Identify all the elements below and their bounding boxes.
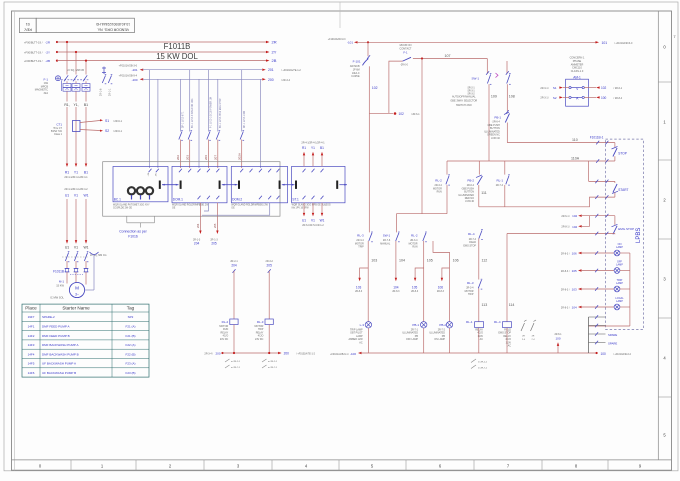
svg-text:F22 (B): F22 (B) bbox=[125, 352, 135, 356]
svg-text:F-101: F-101 bbox=[353, 59, 361, 63]
svg-text:105: 105 bbox=[572, 269, 577, 273]
svg-text:BC-1 LV13-7B12 ENG.STOP: BC-1 LV13-7B12 ENG.STOP bbox=[220, 98, 222, 128]
svg-text:STOP: STOP bbox=[618, 152, 627, 156]
svg-text:2R-3-4 /: 2R-3-4 / bbox=[204, 352, 213, 355]
feeder wire 202A bbox=[241, 70, 243, 132]
aux contact note bbox=[225, 359, 230, 362]
svg-text:R1: R1 bbox=[65, 170, 69, 174]
svg-text:-2R: -2R bbox=[45, 40, 51, 44]
svg-text:104: 104 bbox=[572, 306, 577, 310]
svg-text:2Y: 2Y bbox=[272, 50, 277, 55]
svg-text:DMF FEED PUMP A: DMF FEED PUMP A bbox=[42, 325, 69, 329]
svg-text:GE: GE bbox=[231, 207, 235, 209]
ref arrow 100 up bbox=[557, 345, 559, 354]
svg-text:2R-8-3 /: 2R-8-3 / bbox=[561, 252, 570, 255]
svg-text:BC.1: BC.1 bbox=[114, 197, 121, 201]
earth connection bbox=[90, 252, 99, 255]
svg-text:2R-7-4: 2R-7-4 bbox=[496, 184, 504, 187]
svg-text:-2R-3-1: -2R-3-1 bbox=[467, 91, 476, 93]
svg-text:14F5: 14F5 bbox=[28, 362, 35, 366]
cable R1Y1B1 into ST-1 x=313 bbox=[312, 154, 314, 166]
svg-text:Y1,: Y1, bbox=[73, 103, 78, 107]
CT donuts in BC-1 bbox=[128, 187, 135, 194]
svg-text:CURVE: CURVE bbox=[351, 75, 360, 78]
svg-text:19F7: 19F7 bbox=[28, 315, 35, 319]
svg-text:113: 113 bbox=[482, 303, 488, 307]
svg-text:200: 200 bbox=[284, 352, 290, 356]
svg-text:2R-8-3 /: 2R-8-3 / bbox=[561, 288, 570, 291]
MCB F-101 bbox=[367, 42, 369, 56]
lamp L-3 bbox=[365, 322, 371, 328]
svg-text:RL-3: RL-3 bbox=[467, 281, 474, 285]
svg-text:/ 2R-8-4: / 2R-8-4 bbox=[614, 97, 623, 100]
svg-text:W1: W1 bbox=[83, 246, 88, 250]
earth link bars BC-1/DOM-1 bbox=[159, 181, 161, 189]
svg-text:W1: W1 bbox=[320, 219, 325, 223]
svg-text:10-40-80001/22&44-HD: 10-40-80001/22&44-HD bbox=[95, 22, 130, 26]
svg-text:M: M bbox=[75, 286, 79, 291]
svg-text:PB-2: PB-2 bbox=[467, 179, 474, 183]
svg-text:SW-1: SW-1 bbox=[472, 77, 480, 81]
rail from 107 bbox=[421, 59, 423, 214]
svg-text:100: 100 bbox=[601, 352, 607, 356]
terminal box DOM-2 bbox=[231, 166, 287, 202]
wire B1 down bbox=[85, 107, 87, 164]
wire 108 bbox=[506, 84, 508, 111]
svg-text:2B: 2B bbox=[272, 58, 277, 63]
svg-text:EMG.STOP: EMG.STOP bbox=[618, 227, 634, 231]
wire 107 bbox=[413, 58, 487, 60]
svg-text:PB-1: PB-1 bbox=[494, 116, 501, 120]
wire 200 to BC-1 bbox=[157, 79, 159, 168]
svg-text:-2R-0-0: -2R-0-0 bbox=[400, 64, 409, 66]
svg-text:Class 1: Class 1 bbox=[54, 133, 63, 136]
svg-text:105: 105 bbox=[427, 259, 433, 263]
svg-text:2R-2-1: 2R-2-1 bbox=[230, 260, 238, 263]
svg-text:102: 102 bbox=[572, 214, 577, 218]
svg-text:DP-1 LV13-1/2M: DP-1 LV13-1/2M bbox=[244, 111, 246, 128]
svg-text:14F3: 14F3 bbox=[28, 343, 35, 347]
svg-text:m 2R-7-1: m 2R-7-1 bbox=[231, 367, 241, 369]
svg-text:/ +F1010A/9C3-0: / +F1010A/9C3-0 bbox=[614, 42, 633, 45]
svg-text:S1: S1 bbox=[553, 86, 557, 90]
svg-text:RL-1: RL-1 bbox=[466, 320, 473, 324]
svg-text:Y1: Y1 bbox=[74, 170, 78, 174]
svg-text:m 2R-2-1: m 2R-2-1 bbox=[268, 361, 278, 363]
svg-text:2R-8-3: 2R-8-3 bbox=[437, 291, 445, 293]
svg-text:F1011B-1: F1011B-1 bbox=[590, 135, 604, 139]
svg-text:LV39 40: LV39 40 bbox=[491, 137, 500, 140]
svg-text:110A: 110A bbox=[571, 157, 580, 161]
svg-text:2R-1-6: 2R-1-6 bbox=[100, 88, 103, 96]
svg-text:RL-2: RL-2 bbox=[222, 320, 229, 324]
svg-text:F-1 LV13-1/2C1B POWER 1M: F-1 LV13-1/2C1B POWER 1M bbox=[211, 97, 213, 128]
blue stub DOM-2 bbox=[202, 203, 270, 215]
svg-text:+F00/BLT7-19 /: +F00/BLT7-19 / bbox=[24, 59, 43, 63]
svg-text:RL-2: RL-2 bbox=[411, 234, 418, 238]
svg-text:2R: 2R bbox=[532, 336, 535, 338]
svg-text:205: 205 bbox=[267, 264, 273, 268]
svg-text:WQR GLAND RGLDR/MFBS61 2W: WQR GLAND RGLDR/MFBS61 2W bbox=[172, 203, 209, 206]
svg-text:204: 204 bbox=[231, 264, 237, 268]
svg-text:LAMP: LAMP bbox=[616, 246, 623, 249]
AM-1 102 output bbox=[584, 87, 596, 89]
svg-text:/ 2R-6-1: / 2R-6-1 bbox=[411, 113, 420, 116]
svg-text:B1: B1 bbox=[84, 103, 88, 107]
svg-text:14F6: 14F6 bbox=[28, 371, 35, 375]
svg-text:TRIP: TRIP bbox=[358, 246, 364, 249]
svg-text:S1: S1 bbox=[105, 119, 109, 123]
svg-text:F-1: F-1 bbox=[44, 78, 49, 82]
contact RL-3 trip bbox=[369, 233, 372, 241]
cable U1V1W1 out of ST-1 x=322 bbox=[321, 196, 324, 200]
wire 102 rail bbox=[368, 66, 370, 113]
svg-text:/ 2R-3-4: / 2R-3-4 bbox=[281, 79, 291, 82]
rail 103 to L-3 bbox=[367, 241, 369, 322]
svg-text:PB-2: PB-2 bbox=[439, 323, 446, 327]
lamp PB-2 bbox=[446, 322, 452, 328]
svg-text:EMG.STOP: EMG.STOP bbox=[463, 244, 476, 247]
svg-text:100: 100 bbox=[601, 96, 607, 100]
svg-text:F1016: F1016 bbox=[128, 234, 138, 238]
svg-text:GE: GE bbox=[172, 207, 176, 209]
svg-text:Y1: Y1 bbox=[311, 146, 315, 150]
svg-text:F-1: F-1 bbox=[403, 50, 408, 54]
wire R-phase drop bbox=[66, 42, 68, 75]
svg-text:202: 202 bbox=[176, 155, 180, 160]
svg-text:2R-6-1 /: 2R-6-1 / bbox=[561, 215, 570, 218]
svg-text:RL-2: RL-2 bbox=[435, 179, 442, 183]
feeder wire (blue) bbox=[198, 79, 200, 168]
svg-text:DMF BACKWASH PUMP B: DMF BACKWASH PUMP B bbox=[42, 352, 79, 356]
svg-text:AUTO/OFF/MANUAL: AUTO/OFF/MANUAL bbox=[452, 96, 476, 99]
svg-text:-2Y: -2Y bbox=[45, 50, 50, 54]
svg-text:110: 110 bbox=[572, 138, 578, 142]
push button PB-1 bbox=[506, 110, 509, 114]
svg-text:U1: U1 bbox=[65, 246, 69, 250]
svg-text:RL-1: RL-1 bbox=[496, 179, 503, 183]
outer gland box bbox=[103, 162, 280, 217]
svg-text:V1: V1 bbox=[74, 246, 78, 250]
svg-text:RL-3: RL-3 bbox=[357, 234, 364, 238]
rail 106 to PB-2 lamp bbox=[433, 241, 450, 322]
svg-text:205: 205 bbox=[211, 242, 217, 246]
feeder wire (blue) bbox=[259, 79, 261, 168]
svg-text:-9N: -9N bbox=[155, 173, 157, 177]
svg-text:LAMP: LAMP bbox=[616, 300, 623, 303]
svg-text:106: 106 bbox=[438, 286, 444, 290]
svg-text:UF BACKWASH PUMP A: UF BACKWASH PUMP A bbox=[42, 362, 76, 366]
svg-text:2R-6-C/R-5-C/R-1-2: 2R-6-C/R-5-C/R-1-2 bbox=[302, 224, 324, 227]
svg-text:202A: 202A bbox=[238, 153, 242, 160]
svg-text:ST.1: ST.1 bbox=[292, 197, 299, 201]
rail 104 stub bbox=[395, 241, 397, 279]
svg-text:F1011B: F1011B bbox=[164, 42, 191, 51]
svg-text:101: 101 bbox=[602, 41, 608, 45]
svg-text:REV.: REV. bbox=[24, 28, 32, 32]
svg-text:DMF BACKWASH PUMP A: DMF BACKWASH PUMP A bbox=[42, 343, 79, 347]
svg-text:SPARE: SPARE bbox=[608, 342, 617, 346]
wire 110A bbox=[447, 160, 615, 162]
svg-text:2R-3-1 /: 2R-3-1 / bbox=[540, 87, 549, 90]
svg-text:114: 114 bbox=[509, 303, 515, 307]
svg-text:DMF FEED PUMP B: DMF FEED PUMP B bbox=[42, 334, 70, 338]
svg-text:PB-1: PB-1 bbox=[412, 323, 419, 327]
svg-text:S2: S2 bbox=[105, 129, 109, 133]
svg-text:/ +F0102A/7E-1-2: / +F0102A/7E-1-2 bbox=[296, 353, 316, 356]
aux contacts below 100 bbox=[471, 359, 476, 363]
svg-text:104: 104 bbox=[393, 286, 399, 290]
svg-text:206: 206 bbox=[204, 155, 208, 160]
svg-text:M-1: M-1 bbox=[59, 280, 64, 284]
svg-text:Tag: Tag bbox=[127, 306, 135, 311]
svg-text:S2: S2 bbox=[553, 96, 557, 100]
lamp PB-1 bbox=[421, 322, 427, 328]
connection brace bbox=[126, 216, 128, 223]
svg-text:DP-1 LV13-6/T1: DP-1 LV13-6/T1 bbox=[183, 111, 185, 128]
isolator DP-1 contacts bbox=[102, 67, 106, 75]
svg-text:102: 102 bbox=[601, 86, 607, 90]
svg-text:2R-8-1: 2R-8-1 bbox=[554, 334, 562, 336]
svg-text:CT1: CT1 bbox=[56, 123, 62, 127]
svg-text:B1: B1 bbox=[84, 170, 88, 174]
svg-text:2R-4-1/2R-4-1/2R-4-1: 2R-4-1/2R-4-1/2R-4-1 bbox=[301, 142, 325, 145]
wire 110 bbox=[507, 142, 615, 144]
wire U1 bbox=[66, 199, 68, 241]
START button bbox=[588, 161, 590, 181]
svg-text:F1011B: F1011B bbox=[53, 270, 64, 274]
contact RL-2 run bbox=[423, 233, 426, 241]
stub 205 bbox=[216, 203, 218, 231]
svg-text:m 2R-7-1: m 2R-7-1 bbox=[478, 368, 488, 370]
wire R1 down bbox=[66, 107, 68, 164]
svg-text:RL-4: RL-4 bbox=[494, 320, 501, 324]
svg-text:AC: AC bbox=[508, 345, 512, 348]
svg-text:108: 108 bbox=[509, 94, 515, 98]
svg-text:204: 204 bbox=[196, 223, 200, 228]
svg-text:-200: -200 bbox=[132, 78, 138, 82]
lamp return rail bbox=[629, 253, 631, 326]
svg-text:/ +F0102A/7E-1-2: / +F0102A/7E-1-2 bbox=[281, 69, 301, 72]
svg-text:BC-1 LV13-3 6#N/A OR 1RG: BC-1 LV13-3 6#N/A OR 1RG bbox=[191, 98, 194, 128]
svg-text:2R: 2R bbox=[272, 40, 277, 45]
svg-text:SW-1: SW-1 bbox=[383, 234, 391, 238]
svg-text:103: 103 bbox=[371, 259, 377, 263]
svg-text:+F00/BLT7-19 /: +F00/BLT7-19 / bbox=[24, 50, 43, 54]
wire Y1 down bbox=[75, 107, 77, 164]
svg-text:100: 100 bbox=[555, 336, 560, 340]
svg-text:F21 (A): F21 (A) bbox=[125, 325, 135, 329]
svg-text:+F0101A/2B-9-1 /: +F0101A/2B-9-1 / bbox=[330, 353, 349, 356]
svg-text:/ 2R-6-1: / 2R-6-1 bbox=[614, 87, 623, 90]
right ruler column bbox=[657, 11, 659, 460]
svg-text:B1: B1 bbox=[320, 146, 324, 150]
terminal box DOM-1 bbox=[172, 166, 227, 202]
svg-text:V1: V1 bbox=[311, 219, 315, 223]
svg-text:2R-8-3: 2R-8-3 bbox=[392, 291, 400, 293]
svg-text:LAMP: LAMP bbox=[616, 264, 623, 267]
STOP button bbox=[614, 143, 616, 148]
svg-text:2R-8-1 /: 2R-8-1 / bbox=[561, 226, 570, 229]
feeder wire 203 bbox=[189, 70, 191, 132]
svg-text:F21 (B): F21 (B) bbox=[125, 334, 135, 338]
svg-text:OFF LAMP: OFF LAMP bbox=[406, 338, 418, 341]
cable R1Y1B1 into ST-1 x=322 bbox=[321, 154, 323, 166]
svg-text:-101: -101 bbox=[347, 41, 353, 45]
svg-text:SP2: SP2 bbox=[128, 315, 134, 319]
spare contacts bbox=[521, 320, 527, 331]
svg-text:U1: U1 bbox=[65, 194, 69, 198]
svg-text:TRIP: TRIP bbox=[468, 293, 474, 296]
svg-text:106: 106 bbox=[453, 259, 459, 263]
contact RL-1 bbox=[506, 176, 509, 185]
cable U1V1W1 out of ST-1 x=304 bbox=[303, 196, 306, 200]
svg-text:104: 104 bbox=[399, 259, 405, 263]
wire 114 feed bbox=[507, 233, 615, 235]
svg-text:Connection as per: Connection as per bbox=[119, 229, 147, 233]
svg-text:109: 109 bbox=[491, 94, 497, 98]
svg-text:V1: V1 bbox=[74, 194, 78, 198]
svg-text:m 2R-2-1: m 2R-2-1 bbox=[231, 361, 241, 363]
svg-text:RL-3: RL-3 bbox=[257, 320, 264, 324]
svg-text:14F2: 14F2 bbox=[28, 334, 35, 338]
svg-text:111: 111 bbox=[481, 191, 486, 195]
aux contact note bbox=[262, 359, 267, 362]
svg-text:m 2R-2-1: m 2R-2-1 bbox=[478, 362, 488, 364]
svg-text:112: 112 bbox=[482, 259, 488, 263]
feeder wire 207 bbox=[217, 79, 219, 131]
svg-text:START: START bbox=[618, 188, 628, 192]
svg-text:DOM.2: DOM.2 bbox=[232, 197, 242, 201]
svg-text:Starter Name: Starter Name bbox=[62, 306, 90, 311]
svg-text:CGSPLDE 2W GE: CGSPLDE 2W GE bbox=[113, 207, 132, 209]
svg-text:m 2R-7-1: m 2R-7-1 bbox=[268, 367, 278, 369]
svg-text:32A: 32A bbox=[44, 92, 49, 95]
push button PB-2 bbox=[477, 176, 482, 185]
svg-text:+7N: +7N bbox=[148, 172, 150, 176]
svg-text:14F4: 14F4 bbox=[28, 352, 35, 356]
svg-text:L-3: L-3 bbox=[360, 323, 365, 327]
wire R1 arrow bbox=[66, 163, 68, 167]
svg-text:105: 105 bbox=[412, 286, 418, 290]
svg-text:2R-4-1/2R-4-1/2R-4-2: 2R-4-1/2R-4-1/2R-4-2 bbox=[64, 188, 88, 191]
relay coil RL-1 bbox=[475, 322, 484, 328]
svg-text:204: 204 bbox=[194, 242, 200, 246]
svg-text:15 KW DOL: 15 KW DOL bbox=[156, 52, 198, 61]
contact SW-1 manual bbox=[396, 233, 399, 241]
svg-text:106: 106 bbox=[572, 252, 577, 256]
svg-text:2R-8-3: 2R-8-3 bbox=[411, 291, 419, 293]
svg-text:24V DC: 24V DC bbox=[220, 338, 229, 341]
motor M-1 bbox=[66, 276, 68, 284]
svg-text:SPARE-2: SPARE-2 bbox=[42, 315, 55, 319]
bottom ruler row bbox=[12, 459, 672, 461]
svg-text:U1: U1 bbox=[302, 219, 306, 223]
svg-text:ON LAMP: ON LAMP bbox=[434, 338, 445, 341]
svg-text:-2R-2-1: -2R-2-1 bbox=[467, 88, 476, 90]
svg-text:RL-4: RL-4 bbox=[468, 232, 475, 236]
svg-text:2R-4-1/2R-4-1/2R-4-1: 2R-4-1/2R-4-1/2R-4-1 bbox=[64, 176, 88, 179]
AM-1 100 output bbox=[584, 96, 596, 98]
feeder wire 202 bbox=[179, 79, 181, 131]
svg-text:AC: AC bbox=[480, 338, 484, 341]
terminal box ST-1 bbox=[292, 166, 345, 202]
wire 109 bbox=[488, 84, 490, 161]
feeder wire 206 bbox=[207, 70, 209, 132]
svg-text:F22 (A): F22 (A) bbox=[125, 343, 135, 347]
svg-text:WQR GLAND RGLDR/MFBS61 2W: WQR GLAND RGLDR/MFBS61 2W bbox=[231, 203, 268, 206]
svg-text:-2B: -2B bbox=[45, 59, 50, 63]
starter table bbox=[22, 304, 149, 377]
svg-text:103: 103 bbox=[572, 288, 577, 292]
svg-text:24V DC: 24V DC bbox=[255, 338, 264, 341]
svg-text:WQR GLAND PKTOMET 3GG NYY: WQR GLAND PKTOMET 3GG NYY bbox=[113, 203, 150, 206]
relay coil RL-4 bbox=[503, 322, 512, 328]
svg-text:LV SQ, MM CB: LV SQ, MM CB bbox=[67, 69, 84, 72]
cable U1V1W1 out of ST-1 x=313 bbox=[312, 196, 315, 200]
svg-text:102: 102 bbox=[399, 112, 405, 116]
CT CT1 bbox=[73, 121, 81, 132]
svg-text:R1,: R1, bbox=[64, 103, 69, 107]
svg-text:VENDOR DRG. No.: VENDOR DRG. No. bbox=[97, 27, 129, 31]
title block vendor cell (rotated 180) bbox=[36, 18, 134, 32]
svg-text:3~: 3~ bbox=[75, 292, 79, 296]
svg-text:15 KW: 15 KW bbox=[56, 283, 64, 287]
svg-text:IC MW SOL: IC MW SOL bbox=[50, 296, 64, 300]
wire 201 to BC-1 bbox=[149, 70, 151, 168]
wire B-phase drop bbox=[85, 61, 87, 75]
svg-text:/ +F1010A/9L3-4: / +F1010A/9L3-4 bbox=[613, 353, 632, 356]
svg-text:SPARE: SPARE bbox=[608, 333, 617, 337]
svg-text:2R-8-3 /: 2R-8-3 / bbox=[561, 270, 570, 273]
svg-text:LPBS: LPBS bbox=[636, 228, 642, 243]
svg-text:102: 102 bbox=[372, 86, 378, 90]
svg-text:14F1: 14F1 bbox=[28, 325, 35, 329]
spare terminals bbox=[588, 317, 590, 353]
svg-text:UF BACKWASH PUMP B: UF BACKWASH PUMP B bbox=[42, 371, 76, 375]
svg-text:2R-3-2: 2R-3-2 bbox=[266, 260, 274, 263]
svg-text:DOM.1: DOM.1 bbox=[173, 197, 183, 201]
svg-text:103: 103 bbox=[356, 286, 362, 290]
rail 105 to PB-1 lamp bbox=[423, 241, 425, 322]
title block REV cell (rotated 180) bbox=[19, 18, 36, 32]
svg-text:F23 (B): F23 (B) bbox=[125, 371, 135, 375]
wire V1 bbox=[75, 199, 77, 241]
svg-text:2R: 2R bbox=[522, 336, 525, 338]
svg-text:R1: R1 bbox=[302, 146, 306, 150]
svg-text:WQR GLAND 3GG MFB GE 1U&5GG: WQR GLAND 3GG MFB GE 1U&5GG bbox=[292, 203, 331, 206]
svg-text:107: 107 bbox=[445, 54, 451, 58]
svg-text:2R-1-1: 2R-1-1 bbox=[109, 88, 112, 96]
selector switch SW-1 bbox=[486, 59, 488, 74]
svg-text:RUN: RUN bbox=[412, 246, 417, 249]
svg-text:2R-8-3: 2R-8-3 bbox=[355, 291, 363, 293]
svg-text:201: 201 bbox=[268, 68, 274, 72]
contact RL-2 (seal) bbox=[446, 176, 449, 185]
svg-text:W1: W1 bbox=[83, 194, 88, 198]
svg-text:-100: -100 bbox=[350, 352, 356, 356]
svg-text:/ 2R-6-1: / 2R-6-1 bbox=[113, 130, 123, 133]
stub 204 bbox=[199, 203, 201, 231]
svg-text:+F1010A/9C3-0 /: +F1010A/9C3-0 / bbox=[328, 38, 347, 41]
svg-text:/ 2R-6-1: / 2R-6-1 bbox=[113, 120, 123, 123]
svg-text:RUN: RUN bbox=[437, 191, 442, 194]
svg-text:-201: -201 bbox=[132, 68, 138, 72]
svg-text:GBE 3WAY SELECTOR: GBE 3WAY SELECTOR bbox=[450, 100, 477, 103]
svg-text:102: 102 bbox=[572, 225, 577, 229]
svg-text:LAMP: LAMP bbox=[616, 282, 623, 285]
svg-text:LV39 40: LV39 40 bbox=[465, 200, 474, 203]
